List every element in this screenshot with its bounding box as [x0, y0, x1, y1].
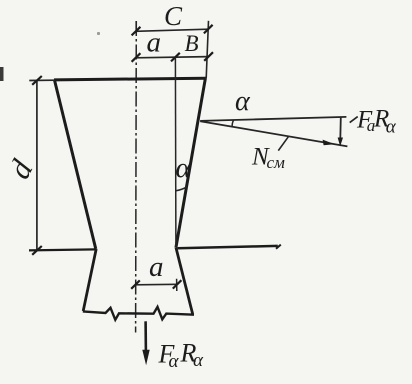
- a/B tick left: [132, 53, 141, 62]
- N_cm force line: [200, 121, 347, 146]
- svg-text:a: a: [149, 251, 164, 283]
- force fan horizontal line: [200, 117, 346, 121]
- svg-text:α: α: [176, 152, 192, 184]
- angle alpha arc (mid column): [176, 187, 187, 191]
- dimension d line: [36, 80, 38, 250]
- centerline (dash-dot axis): [135, 21, 138, 333]
- C tick right: [204, 25, 213, 34]
- scan artifact left edge: [0, 67, 4, 81]
- svg-text:α: α: [193, 350, 204, 371]
- svg-text:α: α: [386, 117, 397, 138]
- label N_cm with leader: [278, 137, 288, 151]
- C extension right: [206, 21, 208, 79]
- bottom edge with break marks: [83, 307, 194, 320]
- N_cm arrowhead: [323, 140, 335, 146]
- leader to F_a R_a label: [350, 117, 358, 123]
- dimension C line: [136, 29, 208, 31]
- svg-text:α: α: [235, 86, 251, 117]
- a/B tick middle: [171, 53, 180, 62]
- C tick left: [132, 27, 141, 36]
- d tick top: [32, 76, 42, 85]
- F_a R_a vertical arrow (top right): [339, 117, 342, 139]
- bottom arrowhead: [142, 350, 149, 365]
- svg-text:α: α: [169, 351, 180, 372]
- svg-text:B: B: [185, 31, 199, 56]
- scan speck: [97, 32, 100, 35]
- dimension a/B line: [136, 57, 209, 58]
- ledge line end hook: [276, 245, 281, 249]
- svg-text:a: a: [147, 27, 162, 59]
- svg-text:C: C: [164, 1, 183, 31]
- d top extension line: [29, 79, 54, 81]
- extension right short: [176, 279, 178, 291]
- angle alpha arc (force fan): [232, 120, 234, 128]
- bottom force arrow F_a R_a: [144, 321, 147, 352]
- column right edge: [176, 78, 206, 248]
- a/B tick right: [204, 52, 213, 61]
- lower-right flare edge: [176, 248, 193, 314]
- C extension left (above): [135, 21, 137, 32]
- lower-left flare edge: [83, 249, 96, 311]
- waist ledge line left: [29, 249, 96, 250]
- arrowhead down: [338, 138, 343, 147]
- tick right (waist a): [173, 280, 182, 288]
- waist ledge line right: [178, 246, 278, 248]
- column top edge: [54, 78, 206, 80]
- vertical reference line from B tick to waist: [174, 57, 177, 247]
- d tick bottom: [32, 246, 42, 255]
- tick left (waist a): [131, 280, 140, 288]
- column left edge: [54, 80, 95, 249]
- svg-text:cм: cм: [267, 153, 286, 172]
- dimension a at waist: [135, 283, 178, 286]
